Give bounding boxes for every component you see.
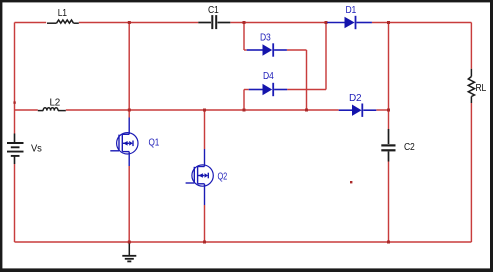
svg-text:D2: D2 [349,93,362,104]
svg-text:RL: RL [476,83,487,94]
svg-text:C1: C1 [208,5,219,16]
svg-text:C2: C2 [404,142,415,153]
svg-text:D1: D1 [346,5,357,16]
svg-text:Vs: Vs [31,144,42,155]
svg-text:Q1: Q1 [149,138,160,149]
svg-text:D4: D4 [263,71,274,82]
svg-text:L2: L2 [50,98,61,109]
svg-text:D3: D3 [260,33,271,44]
svg-text:L1: L1 [58,8,68,19]
svg-text:Q2: Q2 [218,171,228,182]
